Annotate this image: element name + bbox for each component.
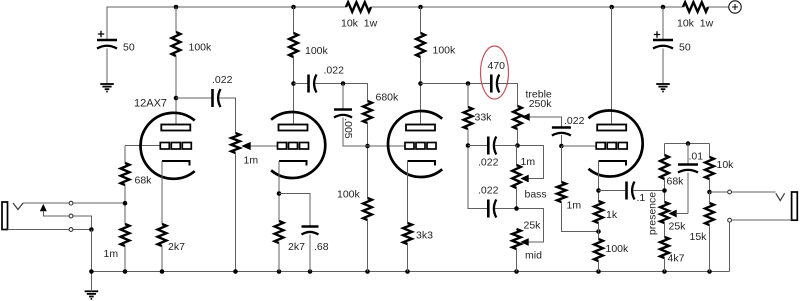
svg-text:.01: .01 xyxy=(689,151,704,163)
wire rail to right 50 cap xyxy=(662,7,664,40)
svg-text:.68: .68 xyxy=(314,241,329,253)
junction coupling / .005 cap xyxy=(341,81,346,86)
wire supply rail to B+ terminal xyxy=(708,6,729,8)
wire right 50 cap to ground xyxy=(662,49,664,85)
svg-text:2k7: 2k7 xyxy=(168,241,185,253)
svg-text:100k: 100k xyxy=(189,42,213,54)
wire ground bus stub xyxy=(90,272,92,292)
svg-text:470: 470 xyxy=(488,60,506,72)
wire .68 to ground bus xyxy=(309,235,311,272)
label .022 (stage1 coupling) xyxy=(212,74,233,86)
wiper arrow of presence pot xyxy=(669,210,676,217)
wire left 50 cap to ground xyxy=(106,49,108,85)
wire 10k to output junction xyxy=(709,179,711,192)
junction rail / 100k stage3 xyxy=(418,5,423,10)
capacitor 470 (treble cap) xyxy=(491,75,499,93)
label 1k xyxy=(606,209,618,221)
junction ground bus / input jack sleeve xyxy=(89,269,94,274)
junction 1k / 100k tail / 1m return xyxy=(596,229,601,234)
junction ground bus / 2k7 stage2 xyxy=(277,269,282,274)
capacitor .68 (cathode bypass) xyxy=(302,227,319,235)
resistor 1m (grid leak V4) xyxy=(557,182,566,202)
label .1 xyxy=(637,192,646,204)
wire plate junction to 470 cap xyxy=(421,83,491,85)
capacitor .01 xyxy=(678,165,698,173)
label .01 xyxy=(689,151,704,163)
svg-text:.005: .005 xyxy=(342,118,354,139)
wire shorting contact to sleeve xyxy=(43,211,91,230)
triode V1 (12AX7 section A) xyxy=(141,113,195,179)
svg-text:68k: 68k xyxy=(135,175,153,187)
label 1m (bass pot) xyxy=(521,156,536,168)
wire volume wiper to V2 grid xyxy=(250,145,278,147)
svg-text:mid: mid xyxy=(525,250,542,262)
wire 2k7 stage2 to ground bus xyxy=(278,243,280,272)
wire mid pot to ground bus xyxy=(516,249,518,272)
label mid xyxy=(525,250,542,262)
wire grid junction to 1m grid leak xyxy=(560,146,562,182)
junction .1 / presence column xyxy=(662,188,667,193)
wire ground bus xyxy=(91,271,729,273)
output jack tip contact circle xyxy=(728,190,732,194)
output jack xyxy=(792,192,798,220)
svg-text:10k 1w: 10k 1w xyxy=(677,18,714,30)
label .005 (rotated) xyxy=(342,118,354,139)
junction sleeve / ground drop xyxy=(89,227,94,232)
wire 2k7 to ground bus xyxy=(161,246,163,272)
wire 100k to V1 plate xyxy=(175,56,177,125)
label 10k (NFB) xyxy=(717,159,735,171)
wire .005 cap top lead xyxy=(342,84,344,110)
wire 100k to V3 plate xyxy=(420,57,422,125)
wire bass cap1 to bass pot / loop xyxy=(495,146,544,179)
junction ground bus / 15k xyxy=(707,269,712,274)
wire grid junction to V4 grid xyxy=(561,145,596,147)
wire 68k top to V1 grid xyxy=(125,145,161,147)
svg-text:100k: 100k xyxy=(305,45,329,57)
resistor 100k (stage3 plate load) xyxy=(416,33,425,57)
junction ground bus / 100k tail xyxy=(596,269,601,274)
wire presence wiper to .01 cap xyxy=(675,213,688,215)
wire 68k body xyxy=(124,146,126,164)
wire 1m to ground bus xyxy=(124,246,126,272)
svg-text:.022: .022 xyxy=(478,185,499,197)
label 1m (V4 grid leak) xyxy=(567,200,582,212)
label bass xyxy=(525,189,547,201)
wiper arrow of bass pot xyxy=(521,175,528,182)
junction 33k top xyxy=(466,81,471,86)
wire treble wiper to .022 out cap xyxy=(529,117,561,128)
svg-text:100k: 100k xyxy=(606,243,630,255)
wire plate junction to coupling cap xyxy=(176,97,211,99)
wire .022 out cap to grid junction xyxy=(560,135,562,146)
resistor 33k (slope) xyxy=(464,107,473,129)
label 25k (presence) xyxy=(669,221,687,233)
resistor 10k (NFB) xyxy=(705,157,714,179)
wire bass pot top lead xyxy=(517,146,518,166)
label 50 (right cap) xyxy=(679,42,691,54)
label .022 (bass lower) xyxy=(478,185,499,197)
resistor 2k7 (cathode V1) xyxy=(158,224,167,246)
highlight ellipse around 470 cap xyxy=(481,46,509,99)
polarity + of left 50 cap xyxy=(98,31,104,37)
svg-text:680k: 680k xyxy=(376,92,400,104)
junction ground bus / 25k mid pot xyxy=(514,269,519,274)
wire rail to 100k stage2 xyxy=(293,7,295,33)
wire divider 100k to ground bus xyxy=(367,220,369,272)
label 100k (stage1) xyxy=(189,42,213,54)
wire 33k to bass caps column xyxy=(468,129,487,209)
ground (right filter cap) xyxy=(656,84,670,92)
svg-text:presence: presence xyxy=(646,192,658,235)
capacitor 50 (right filter, polarized) xyxy=(653,40,673,49)
wire 3k3 to ground bus xyxy=(407,244,409,272)
wire bass cap2 to mid pot / loop xyxy=(495,209,544,243)
junction ground bus / 4k7 xyxy=(662,269,667,274)
label 15k xyxy=(690,231,708,243)
label 100k (divider) xyxy=(337,189,361,201)
capacitor .022 (stage2 coupling) xyxy=(309,75,317,93)
wire jack sleeve xyxy=(8,229,92,231)
junction treble bottom / bass top xyxy=(515,143,520,148)
wire cathode junction to .1 cap xyxy=(599,190,626,192)
svg-text:10k 1w: 10k 1w xyxy=(341,18,378,30)
input jack tip symbol V xyxy=(13,203,23,210)
triode V2 (12AX7 section B) xyxy=(271,112,325,178)
svg-text:.022: .022 xyxy=(564,115,585,127)
wiper arrow of volume pot xyxy=(242,143,250,150)
resistor 100k (stage1 plate load) xyxy=(172,32,181,56)
wire 68k top lead xyxy=(664,144,666,156)
junction divider / V3 grid line xyxy=(365,144,370,149)
svg-text:1m: 1m xyxy=(104,248,119,260)
label 10k 1w (left) xyxy=(341,18,378,30)
junction V4 grid / 1m grid leak xyxy=(559,144,564,149)
svg-text:1k: 1k xyxy=(606,209,618,221)
wire 15k to ground bus xyxy=(709,225,711,272)
label 100k (stage2) xyxy=(305,45,329,57)
junction cathode / .1 cap xyxy=(596,188,601,193)
capacitor .022 (stage1 coupling) xyxy=(213,89,221,107)
triode V3 (12AX7 section A2) xyxy=(388,111,442,177)
wire V2 plate junction to coupling cap xyxy=(294,83,308,85)
junction V2 plate / coupling cap xyxy=(291,81,296,86)
junction rail / 100k stage2 xyxy=(291,5,296,10)
wire V3 cathode to 3k3 xyxy=(407,161,409,223)
resistor 2k7 (cathode V2) xyxy=(275,221,284,243)
label 1m (volume pot) xyxy=(244,155,259,167)
resistor 1k (CF cathode) xyxy=(594,201,603,223)
wire sleeve to ground bus xyxy=(90,230,92,272)
svg-text:15k: 15k xyxy=(690,231,708,243)
wire 68k bottom to presence pot xyxy=(664,179,666,202)
wire 4k7 to ground bus xyxy=(664,258,666,272)
junction ground bus / 2k7 stage1 xyxy=(160,269,165,274)
resistor 10k 1w (right dropping resistor) xyxy=(683,2,708,12)
wire bass pot bottom xyxy=(516,188,518,209)
svg-text:10k: 10k xyxy=(717,159,735,171)
potentiometer treble 250k element xyxy=(513,106,522,129)
label 250k xyxy=(529,98,553,110)
jack shorting contact arrow xyxy=(40,205,46,211)
svg-text:100k: 100k xyxy=(337,189,361,201)
junction V2 cathode / .68 branch xyxy=(277,191,282,196)
label 680k xyxy=(376,92,400,104)
wire coupling cap to volume pot top xyxy=(219,98,236,133)
wire output sleeve xyxy=(730,220,792,271)
wire 33k top lead xyxy=(467,84,469,108)
wire output junction to 15k xyxy=(709,192,711,203)
junction ground bus / 3k3 cathode xyxy=(405,269,410,274)
junction ground bus / .68 cap xyxy=(308,269,313,274)
junction 10k / 15k / output tip xyxy=(707,190,712,195)
junction 33k bottom / bass cap xyxy=(466,143,471,148)
wire rail to 100k stage1 xyxy=(175,7,177,32)
wire output tip xyxy=(710,191,776,193)
svg-text:bass: bass xyxy=(525,189,547,201)
resistor 68k (NFB) xyxy=(660,155,669,179)
label treble xyxy=(526,89,552,101)
wire V2 cathode xyxy=(278,161,280,221)
svg-text:50: 50 xyxy=(679,42,691,54)
wiper arrow of mid pot xyxy=(521,239,528,246)
wire bass cap1 run xyxy=(468,145,487,147)
wire 10k NFB top lead xyxy=(709,144,711,158)
potentiometer presence 25k element xyxy=(660,202,669,223)
resistor 3k3 (cathode V3) xyxy=(403,223,412,244)
capacitor .005 xyxy=(334,110,352,118)
label 2k7 (stage1) xyxy=(168,241,185,253)
ground (main bus) xyxy=(85,291,99,299)
wire 100k tail to ground bus xyxy=(598,261,600,272)
output jack tip symbol V xyxy=(776,193,785,200)
label 100k (CF tail) xyxy=(606,243,630,255)
wire V4 cathode down xyxy=(598,161,600,201)
wire 100k to V2 plate xyxy=(293,57,295,125)
wire NFB top link xyxy=(665,143,710,145)
svg-text:12AX7: 12AX7 xyxy=(134,98,167,110)
B+ terminal (+) xyxy=(729,1,741,13)
svg-text:2k7: 2k7 xyxy=(288,241,305,253)
resistor 100k (stage2 plate load) xyxy=(289,33,298,57)
label 3k3 xyxy=(416,230,433,242)
junction rail / plate V4 xyxy=(609,5,614,10)
wire 470 cap to treble pot top xyxy=(498,84,518,107)
capacitor 50 (left filter, polarized) xyxy=(97,40,117,49)
resistor 100k (CF tail) xyxy=(594,239,603,261)
label 68k (NFB) xyxy=(667,176,685,188)
capacitor .1 (output coupling) xyxy=(627,182,635,200)
svg-text:25k: 25k xyxy=(524,220,542,232)
potentiometer bass 1m element xyxy=(512,165,521,188)
label .022 (stage2 coupling) xyxy=(324,65,345,77)
junction tip wire / 68k / 1m xyxy=(123,201,128,206)
junction rail / filter cap C-50b xyxy=(661,5,666,10)
label presence (rotated) xyxy=(646,192,658,235)
wire rail to 100k stage3 xyxy=(420,7,422,33)
label .68 xyxy=(314,241,329,253)
potentiometer mid 25k element xyxy=(512,229,521,249)
svg-text:1m: 1m xyxy=(244,155,259,167)
potentiometer 1m volume element xyxy=(231,133,240,153)
wire presence pot to 4k7 xyxy=(664,223,666,237)
capacitor .022 (bass cap lower) xyxy=(488,200,496,218)
wire 1k to 100k tail xyxy=(598,223,600,239)
wire .01 bottom to wiper line xyxy=(687,173,689,214)
junction V1 plate / coupling cap .022 xyxy=(174,96,179,101)
resistor 100k (divider lower) xyxy=(363,198,372,220)
wire supply rail node B (middle) xyxy=(371,6,683,8)
jack sleeve contact circle xyxy=(69,228,73,232)
polarity + of right 50 cap xyxy=(654,31,660,37)
junction ground bus / 100k divider xyxy=(365,269,370,274)
wire cathode junction to .68 cap xyxy=(279,194,310,227)
resistor 1m (grid leak V1) xyxy=(121,224,130,246)
svg-text:.1: .1 xyxy=(637,192,646,204)
label 33k xyxy=(475,112,493,124)
junction bass bottom / mid top xyxy=(514,206,519,211)
wire 68k bottom to tip junction xyxy=(124,185,126,224)
capacitor .022 (bass cap upper) xyxy=(488,137,496,155)
svg-text:1m: 1m xyxy=(521,156,536,168)
svg-text:4k7: 4k7 xyxy=(668,253,685,265)
resistor 68k (grid stopper V1) xyxy=(121,163,130,185)
wire .01 top lead xyxy=(687,144,689,165)
junction V3 plate / tone stack feed xyxy=(418,81,423,86)
label 25k (mid pot) xyxy=(524,220,542,232)
triode V4 (12AX7 section B2) xyxy=(589,110,643,176)
junction ground bus / volume pot xyxy=(233,269,238,274)
resistor 680k xyxy=(363,101,372,123)
label 470 xyxy=(488,60,506,72)
wire 1m bottom to 1k/100k junction xyxy=(561,202,598,232)
wire V1 cathode to 2k7 xyxy=(161,161,163,224)
wire .1 cap to presence column xyxy=(633,190,665,192)
svg-text:.022: .022 xyxy=(212,74,233,86)
resistor 10k 1w (left dropping resistor) xyxy=(346,2,371,12)
label 1m (grid leak) xyxy=(104,248,119,260)
svg-text:1m: 1m xyxy=(567,200,582,212)
svg-text:250k: 250k xyxy=(529,98,553,110)
svg-text:.022: .022 xyxy=(324,65,345,77)
label 10k 1w (right) xyxy=(677,18,714,30)
label 2k7 (stage2) xyxy=(288,241,305,253)
jack tip contact circle xyxy=(69,201,73,205)
junction ground bus / 1m grid leak xyxy=(123,269,128,274)
wire jack tip to grid network xyxy=(23,202,125,204)
svg-text:25k: 25k xyxy=(669,221,687,233)
input jack xyxy=(2,202,8,230)
svg-text:100k: 100k xyxy=(433,45,457,57)
svg-text:3k3: 3k3 xyxy=(416,230,433,242)
capacitor .022 (treble output) xyxy=(552,128,571,136)
label 12AX7 xyxy=(134,98,167,110)
jack ring contact circle xyxy=(69,214,73,218)
wiper arrow of treble pot xyxy=(522,114,529,121)
label 50 (left cap) xyxy=(123,42,135,54)
svg-text:68k: 68k xyxy=(667,176,685,188)
label 100k (stage3) xyxy=(433,45,457,57)
wire .005 to V3 grid xyxy=(343,118,405,147)
ground (left filter cap) xyxy=(100,84,114,92)
wire volume pot bottom to ground bus xyxy=(235,153,237,272)
wire coupling cap to 680k corner xyxy=(315,84,368,102)
wire treble bottom to junction xyxy=(517,129,519,146)
resistor 15k xyxy=(705,203,714,225)
label 4k7 xyxy=(668,253,685,265)
svg-text:.022: .022 xyxy=(478,157,499,169)
wire supply rail node A (left) with drop to filter cap C-50a xyxy=(107,7,346,40)
resistor 4k7 xyxy=(660,237,669,258)
label .022 (treble output) xyxy=(564,115,585,127)
label .022 (bass upper) xyxy=(478,157,499,169)
svg-text:50: 50 xyxy=(123,42,135,54)
output jack sleeve contact circle xyxy=(728,218,732,222)
wire rail to V4 plate xyxy=(611,7,613,125)
label 68k (stage1) xyxy=(135,175,153,187)
wire 680k to 100k divider xyxy=(367,123,369,198)
svg-text:33k: 33k xyxy=(475,112,493,124)
junction rail / 100k stage1 xyxy=(174,5,179,10)
junction NFB top / .01 cap xyxy=(686,141,691,146)
